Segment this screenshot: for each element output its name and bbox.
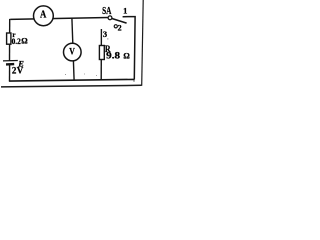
switch SA lever xyxy=(112,19,127,24)
svg-text:Ω: Ω xyxy=(21,37,28,46)
battery cell E xyxy=(3,59,24,69)
switch contact 2 terminal xyxy=(114,25,117,28)
wire right (from contact 1 down to bottom wire) xyxy=(123,17,136,80)
wire left upper (corner down to battery top plate) xyxy=(9,19,11,61)
svg-text:V: V xyxy=(69,48,75,58)
scan noise specks xyxy=(65,38,135,81)
wire left lower (battery to bottom corner) xyxy=(9,64,11,81)
wire bottom xyxy=(9,79,134,81)
value label 0.2 ohm xyxy=(12,37,29,46)
resistor r box (internal resistance) xyxy=(7,31,16,44)
wire top (left corner to switch pivot) xyxy=(10,18,108,20)
resistor R box xyxy=(99,44,111,59)
svg-text:2: 2 xyxy=(118,23,122,32)
svg-text:2 V: 2 V xyxy=(12,65,24,75)
svg-text:SA: SA xyxy=(102,5,111,17)
svg-text:A: A xyxy=(40,10,47,21)
value label 9.8 ohm xyxy=(106,51,130,61)
ammeter A xyxy=(34,6,54,26)
svg-text:9.8: 9.8 xyxy=(106,51,120,61)
wire voltmeter branch xyxy=(72,18,74,80)
switch SA pivot xyxy=(108,16,112,20)
svg-text:1: 1 xyxy=(123,6,127,16)
voltmeter V xyxy=(64,43,82,61)
svg-text:0.2: 0.2 xyxy=(12,37,21,46)
wire resistor R branch xyxy=(100,29,102,80)
svg-text:Ω: Ω xyxy=(123,52,130,61)
svg-text:3: 3 xyxy=(103,29,107,39)
